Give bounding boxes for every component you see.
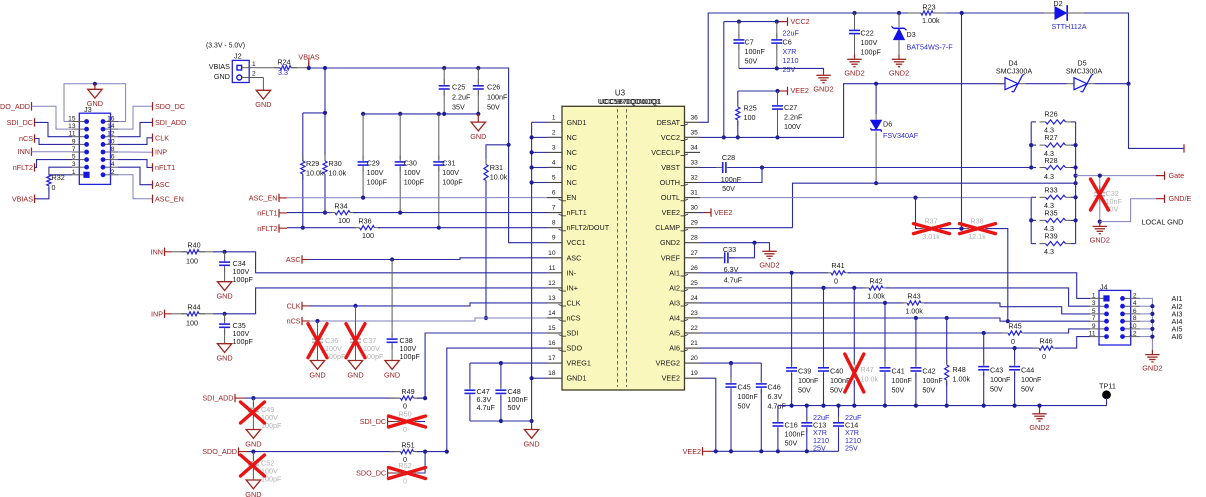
svg-text:SDO_DC: SDO_DC (155, 102, 185, 111)
GND bus for pins 1-5 and 18 (531, 122, 533, 429)
junction C31 top (437, 112, 441, 116)
svg-text:R48: R48 (953, 365, 966, 374)
svg-text:8: 8 (552, 220, 556, 227)
wire GND rail under C25 C26 (363, 113, 478, 115)
svg-text:CLK: CLK (155, 133, 169, 142)
svg-text:INP: INP (151, 309, 163, 318)
svg-text:GND: GND (347, 370, 363, 379)
wire VEE2 rail (738, 90, 786, 92)
junction D6 bottom (874, 181, 878, 185)
wire ASC row (310, 258, 548, 260)
svg-text:C44: C44 (1021, 365, 1034, 374)
wire GND2 pin28 row (700, 243, 770, 247)
svg-text:100V: 100V (404, 168, 421, 177)
svg-text:UCC5870QDWJQ1: UCC5870QDWJQ1 (599, 97, 661, 106)
wire J3 pin8 to INP (118, 151, 153, 153)
svg-text:C27: C27 (784, 103, 797, 112)
DNP cross R37 (914, 224, 950, 234)
svg-text:0: 0 (834, 276, 838, 285)
capacitor C48 (500, 363, 502, 388)
pin 26 AI1 (685, 272, 701, 274)
svg-text:R31: R31 (490, 163, 503, 172)
svg-text:100nF: 100nF (990, 375, 1011, 384)
wire OUTL drop to R37 (916, 198, 922, 229)
svg-text:GND: GND (470, 132, 486, 141)
ground GND below C36 (310, 361, 324, 370)
capacitor C45 (730, 363, 732, 382)
wire J4 even pin (1140, 328, 1152, 330)
svg-text:SDI: SDI (567, 329, 579, 338)
resistor R52 DNP (394, 472, 400, 474)
ground GND2 under C22 (854, 55, 856, 60)
pin 13 CLK (547, 302, 562, 304)
wire AI5 row to R45 (700, 332, 1006, 334)
svg-text:1.00k: 1.00k (953, 375, 971, 384)
svg-text:10.0k: 10.0k (306, 168, 324, 177)
resistor R49 (390, 397, 400, 399)
ground GND below rail (477, 114, 479, 122)
wire J2 pin2 to GND (256, 77, 263, 79)
pin 36 DESAT (685, 121, 701, 123)
junction C48 top (499, 361, 503, 365)
svg-text:9: 9 (552, 235, 556, 242)
DNP cross C37 (346, 324, 365, 358)
svg-text:13: 13 (548, 295, 556, 302)
svg-text:VCC1: VCC1 (567, 238, 586, 247)
resistor R23 (908, 12, 921, 14)
pin 21 AI6 (685, 347, 701, 349)
svg-text:nCS: nCS (19, 134, 33, 143)
wire OUTH pin to node (700, 168, 762, 183)
svg-text:nFLT1: nFLT1 (257, 209, 277, 218)
DNP capacitor C32 (1099, 176, 1101, 191)
svg-text:8: 8 (1133, 315, 1137, 322)
svg-text:nFLT1: nFLT1 (155, 163, 175, 172)
DNP cross R38 (960, 224, 996, 234)
svg-text:R49: R49 (401, 387, 414, 396)
svg-text:AI2: AI2 (669, 283, 680, 292)
junction C6 top (775, 20, 779, 24)
svg-text:4.7uF: 4.7uF (768, 402, 787, 411)
svg-text:34: 34 (691, 144, 699, 151)
junction C40 top (821, 286, 825, 290)
svg-text:3.01k: 3.01k (922, 232, 940, 241)
svg-text:9: 9 (1092, 323, 1096, 330)
junction C41 top (883, 301, 887, 305)
svg-text:GND2: GND2 (889, 68, 909, 77)
capacitor C14 (838, 406, 840, 421)
junction stack2 left R35 (1029, 218, 1033, 222)
svg-text:C40: C40 (830, 367, 843, 376)
svg-text:100nF: 100nF (785, 429, 806, 438)
svg-text:SDO: SDO (567, 344, 583, 353)
net label SDI_ADD right (152, 118, 154, 126)
svg-text:C42: C42 (922, 367, 935, 376)
svg-text:NC: NC (567, 133, 577, 142)
wire J4 even pin (1140, 305, 1152, 307)
svg-text:6: 6 (552, 190, 556, 197)
junction C44 top (1013, 346, 1017, 350)
wire SDI_ADD to R49 (244, 397, 395, 399)
DNP cross C32 (1091, 179, 1109, 210)
wire R45 to J4 pin9 (1024, 329, 1090, 333)
svg-text:33: 33 (691, 160, 699, 167)
junction C14 top (836, 404, 840, 408)
svg-text:2: 2 (552, 129, 556, 136)
wire VCC2 row to D4 D5 row (700, 84, 1004, 138)
svg-text:23: 23 (691, 310, 699, 317)
svg-text:NC: NC (567, 163, 577, 172)
svg-text:15: 15 (548, 325, 556, 332)
svg-text:R47: R47 (861, 365, 874, 374)
junction C27 bottom (775, 135, 779, 139)
wire VCC2 label rail (724, 21, 785, 23)
svg-text:32: 32 (691, 175, 699, 182)
wire R32 to VBIAS (35, 187, 49, 199)
svg-text:GND1: GND1 (567, 118, 587, 127)
svg-text:X7R: X7R (783, 47, 797, 56)
capacitor C33 (700, 257, 722, 259)
svg-text:R30: R30 (329, 159, 342, 168)
svg-text:INP: INP (155, 148, 167, 157)
svg-text:2: 2 (111, 169, 115, 176)
wire R42 to J4 pin3 (886, 288, 1090, 306)
svg-text:50V: 50V (722, 184, 735, 193)
wire nCS row (310, 318, 548, 321)
resistor R26 (1031, 121, 1036, 123)
wire CLAMP row to riser (700, 227, 793, 229)
svg-text:9: 9 (72, 138, 76, 145)
capacitor C43 (983, 333, 985, 364)
svg-text:2.2nF: 2.2nF (784, 113, 803, 122)
svg-text:VCECLP: VCECLP (651, 148, 680, 157)
svg-text:31: 31 (691, 190, 699, 197)
svg-text:100nF: 100nF (487, 93, 508, 102)
wire TP11 to rail A (1106, 398, 1108, 406)
svg-text:R24: R24 (277, 57, 290, 66)
svg-text:0: 0 (1042, 352, 1046, 361)
capacitor C34 (224, 252, 226, 260)
svg-text:50V: 50V (745, 57, 758, 66)
wire R38 down to AI4 row (986, 229, 1008, 322)
junction R50 output (423, 396, 427, 400)
svg-text:VCC2: VCC2 (661, 133, 680, 142)
pin 18 GND1 (547, 377, 562, 379)
junction C40 bottom (821, 404, 825, 408)
svg-text:4.7uF: 4.7uF (724, 275, 743, 284)
svg-text:22: 22 (691, 325, 699, 332)
resistor R46 (1033, 347, 1039, 349)
wire R40 to IN- pin (213, 252, 547, 273)
svg-text:10.0k: 10.0k (329, 168, 347, 177)
junction C44 bottom (1013, 404, 1017, 408)
net label VCC2 (779, 21, 788, 23)
capacitor C26 (477, 68, 479, 84)
svg-text:IN+: IN+ (567, 283, 578, 292)
svg-text:STTH112A: STTH112A (1051, 22, 1086, 31)
junction C28 OUTH node (760, 165, 764, 169)
junction R31 at VCC1 drop (507, 143, 511, 147)
svg-text:28: 28 (691, 235, 699, 242)
svg-text:100nF: 100nF (1021, 375, 1042, 384)
svg-text:VBIAS: VBIAS (209, 62, 230, 71)
pin 23 AI4 (685, 317, 701, 319)
pin 34 VCECLP (685, 151, 701, 153)
ground GND2 under C32 (1099, 222, 1101, 227)
svg-text:R27: R27 (1044, 133, 1057, 142)
junction R51 SDO corner (445, 450, 449, 454)
junction C29 top (361, 112, 365, 116)
junction R31 bottom nCS (484, 316, 488, 320)
svg-text:7: 7 (72, 146, 76, 153)
wire J4 right pins to GND2 (1140, 298, 1152, 349)
svg-text:C28: C28 (722, 153, 735, 162)
wire R36 to nFLT2 pin (378, 227, 547, 229)
wire stack1 left tie (1030, 122, 1032, 168)
wire SDO_ADD to R51 (247, 451, 395, 453)
svg-text:VREF: VREF (661, 253, 681, 262)
junction R37 R38 to DESAT drop (959, 227, 963, 231)
resistor R31 (486, 145, 509, 164)
svg-text:50V: 50V (508, 403, 521, 412)
wire J3 pin14 to SDO_DC (118, 106, 153, 129)
wire VBIAS drop to R29 R30 (324, 68, 326, 113)
svg-text:11: 11 (549, 265, 556, 272)
capacitor C41 (884, 303, 886, 366)
junction GND bus pin3 (530, 150, 534, 154)
svg-text:50V: 50V (830, 386, 843, 395)
svg-text:AI3: AI3 (669, 298, 680, 307)
svg-text:100V: 100V (861, 38, 878, 47)
junction C41 bottom (883, 404, 887, 408)
svg-text:R40: R40 (187, 241, 200, 250)
svg-text:14: 14 (548, 310, 556, 317)
wire R37 to R38 (940, 228, 966, 230)
svg-text:22uF: 22uF (783, 29, 800, 38)
pin 3 NC (547, 151, 562, 153)
svg-text:50V: 50V (798, 386, 811, 395)
svg-text:R44: R44 (187, 303, 200, 312)
capacitor C40 (823, 288, 825, 366)
svg-text:VBIAS: VBIAS (12, 194, 33, 203)
wire INP to R44 (165, 313, 172, 315)
resistor R30 (324, 113, 326, 161)
wire C47 C48 bottoms to GND bus (470, 420, 532, 422)
svg-text:C30: C30 (404, 159, 417, 168)
junction C25 bottom (442, 112, 446, 116)
svg-text:R23: R23 (922, 3, 935, 12)
svg-text:100nF: 100nF (745, 47, 766, 56)
svg-text:nCS: nCS (567, 314, 581, 323)
wire D5 to right vertical (1095, 83, 1129, 85)
net label VEE2 pin30 (700, 212, 703, 214)
svg-text:C26: C26 (487, 83, 500, 92)
svg-text:R42: R42 (869, 276, 882, 285)
svg-text:100nF: 100nF (922, 376, 943, 385)
pin 1 GND1 (547, 121, 562, 123)
svg-text:D6: D6 (883, 120, 892, 129)
diode D3 BAT54WS-7-F (898, 13, 900, 27)
junction C22 top rail (852, 11, 856, 15)
svg-text:19: 19 (691, 370, 699, 377)
svg-text:nFLT2: nFLT2 (13, 163, 33, 172)
svg-text:0: 0 (403, 425, 407, 434)
capacitor C35 (224, 314, 226, 322)
svg-text:CLAMP: CLAMP (655, 223, 680, 232)
svg-text:R35: R35 (1044, 208, 1057, 217)
svg-text:12: 12 (548, 280, 556, 287)
wire VREG1 to C47 C48 (470, 362, 547, 364)
capacitor C31 (438, 114, 440, 160)
svg-text:100nF: 100nF (798, 376, 819, 385)
junction C43 bottom (982, 404, 986, 408)
svg-text:U3: U3 (615, 88, 626, 97)
svg-text:VEE2: VEE2 (662, 374, 680, 383)
svg-text:1: 1 (1092, 292, 1096, 299)
ground GND below C49 (246, 430, 260, 439)
svg-text:2: 2 (1133, 292, 1137, 299)
svg-text:4: 4 (1133, 300, 1137, 307)
junction stack right R33 (1074, 195, 1078, 199)
svg-text:ASC: ASC (286, 255, 301, 264)
junction R47 bottom (852, 404, 856, 408)
junction C39 bottom (790, 404, 794, 408)
svg-text:SDI_ADD: SDI_ADD (202, 394, 233, 403)
DNP cross C36 (308, 324, 327, 358)
svg-text:1.00k: 1.00k (905, 307, 923, 316)
wire GND2 rail A (778, 405, 1107, 407)
svg-text:EN: EN (567, 193, 577, 202)
junction stack right R35 (1074, 218, 1078, 222)
wire C28 to OUTH node (728, 167, 762, 169)
wire R52 to R51 junction (417, 452, 425, 473)
junction C31 bottom (437, 226, 441, 230)
svg-text:6.3V: 6.3V (768, 392, 783, 401)
pin 29 CLAMP (685, 227, 701, 229)
svg-text:100pF: 100pF (400, 352, 421, 361)
junction stack right R28 (1074, 165, 1078, 169)
svg-text:R26: R26 (1044, 109, 1057, 118)
svg-text:16: 16 (107, 115, 115, 122)
junction J4 gnd tie (1150, 319, 1154, 323)
svg-text:SDO_ADD: SDO_ADD (202, 447, 237, 456)
capacitor C44 (1014, 348, 1016, 364)
svg-text:10: 10 (107, 138, 115, 145)
wire AI1 row to R41 (700, 272, 828, 274)
svg-text:C46: C46 (768, 383, 781, 392)
capacitor C49 DNP (252, 398, 254, 406)
junction D6 top (874, 82, 878, 86)
resistor R51 (390, 451, 400, 453)
svg-text:SDI_DC: SDI_DC (360, 417, 386, 426)
resistor R44 (181, 313, 187, 315)
wire R51 to SDO pin (417, 348, 547, 452)
wire C6 C7 bottoms to GND2 (739, 68, 824, 70)
net label SDO_DC right (152, 102, 154, 110)
svg-text:AI5: AI5 (669, 329, 680, 338)
wire CLAMP riser and row to stack tie (793, 183, 1076, 228)
svg-text:100V: 100V (367, 168, 384, 177)
junction C46 bottom (759, 449, 763, 453)
svg-text:10.0k: 10.0k (490, 173, 508, 182)
capacitor C39 (791, 273, 793, 366)
wire AI4 row to J4 pin7 (700, 318, 1090, 321)
svg-text:Gate: Gate (1169, 171, 1185, 180)
wire VEE2 rail B (711, 450, 839, 452)
svg-text:GND: GND (216, 354, 232, 363)
svg-text:29: 29 (691, 220, 699, 227)
capacitor C29 (362, 114, 364, 160)
svg-text:nFLT2/DOUT: nFLT2/DOUT (567, 223, 610, 232)
svg-text:12: 12 (1129, 331, 1137, 338)
wire R46 to J4 pin11 (1055, 337, 1090, 349)
svg-text:27: 27 (691, 250, 699, 257)
svg-text:0: 0 (1011, 337, 1015, 346)
junction R48 top (945, 316, 949, 320)
svg-text:50V: 50V (922, 386, 935, 395)
capacitor C22 (854, 13, 856, 28)
wire VBIAS rail to VCC1 drop (309, 68, 547, 243)
svg-text:R29: R29 (306, 159, 319, 168)
svg-text:C31: C31 (442, 159, 455, 168)
svg-text:GND2: GND2 (1142, 364, 1162, 373)
resistor R28 (1031, 167, 1036, 169)
svg-text:10.0k: 10.0k (861, 375, 879, 384)
svg-text:VEE2: VEE2 (714, 208, 732, 217)
svg-text:SDO_DC: SDO_DC (356, 469, 386, 478)
pin 6 EN (547, 197, 562, 199)
svg-text:1210: 1210 (783, 56, 799, 65)
capacitor C28 (700, 167, 721, 169)
pin 32 OUTH (685, 182, 701, 184)
connector J2 (232, 60, 249, 82)
pin 9 VCC1 (547, 242, 562, 244)
wire R41 to J4 pin1 (848, 273, 1090, 299)
pin 28 GND2 (685, 242, 701, 244)
svg-text:GND/E: GND/E (1169, 194, 1192, 203)
svg-text:C45: C45 (738, 383, 751, 392)
svg-text:OUTH: OUTH (660, 178, 680, 187)
svg-text:GND: GND (214, 72, 230, 81)
ground GND2 pin28 (769, 247, 771, 252)
junction C16 bottom (776, 449, 780, 453)
wire DESAT up to top rail (700, 13, 919, 122)
pin 17 VREG1 (547, 362, 562, 364)
wire OUTH node to gate resistors (762, 167, 1031, 169)
pin 35 VCC2 (685, 136, 701, 138)
pin 19 VEE2 (685, 377, 701, 379)
svg-text:7: 7 (1092, 315, 1096, 322)
svg-text:R52: R52 (398, 461, 411, 470)
svg-text:D2: D2 (1053, 0, 1062, 8)
svg-text:DESAT: DESAT (657, 118, 681, 127)
wire nFLT1 to R34 (287, 212, 332, 214)
capacitor C36 DNP (317, 321, 319, 337)
junction stack right R27 (1074, 143, 1078, 147)
pin 12 IN+ (547, 287, 562, 289)
svg-text:10: 10 (1129, 323, 1137, 330)
pin 2 NC (547, 136, 562, 138)
svg-text:(3.3V - 5.0V): (3.3V - 5.0V) (206, 43, 245, 50)
svg-text:R25: R25 (744, 104, 757, 113)
svg-text:21: 21 (691, 340, 699, 347)
capacitor C13 (806, 406, 808, 421)
junction C32 top (1098, 174, 1102, 178)
pin 11 IN- (547, 272, 562, 274)
svg-text:R28: R28 (1044, 156, 1057, 165)
wire J2 pin1 to R24 (256, 67, 280, 69)
junction C32 bottom GND/E (1098, 220, 1102, 224)
